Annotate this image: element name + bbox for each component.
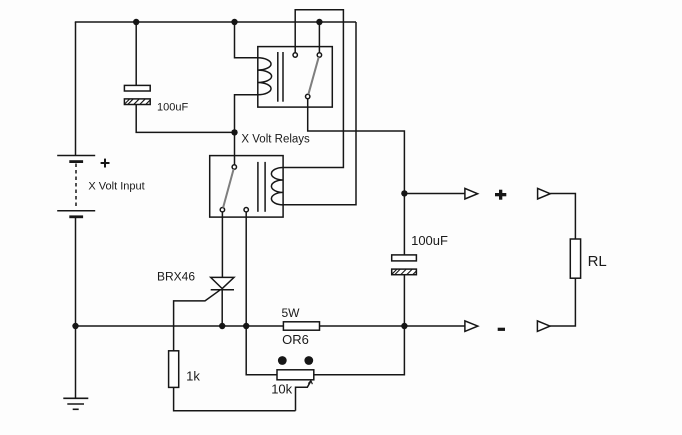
- relay K1 coil: [258, 58, 272, 95]
- node SCR cathode / bottom rail: [219, 323, 225, 329]
- wire RL bottom to minus right terminal: [550, 278, 575, 326]
- relay K1 switch contacts: [293, 53, 297, 57]
- relay K2 switch arm: [223, 169, 234, 208]
- svg-text:BRX46: BRX46: [157, 269, 195, 283]
- relay K2 coil: [271, 168, 283, 205]
- svg-text:X Volt Relays: X Volt Relays: [241, 133, 310, 145]
- wire R1 bottom to pot wiper run: [174, 387, 296, 410]
- svg-text:X Volt Input: X Volt Input: [88, 180, 144, 192]
- svg-text:5W: 5W: [282, 306, 301, 320]
- svg-text:100uF: 100uF: [157, 101, 188, 113]
- wire bottom rail right of R2: [320, 325, 465, 327]
- terminal arrow plus left: [465, 188, 478, 199]
- node top rail / C1: [133, 19, 139, 25]
- svg-text:100uF: 100uF: [411, 233, 448, 248]
- node K2 contact / pot left / bottom rail: [243, 323, 249, 329]
- relay K1 core: [277, 52, 279, 102]
- wire capacitor C1 bottom to node: [136, 105, 234, 133]
- resistor R2 5W OR6: [283, 322, 319, 330]
- wire K2 contact down to bottom rail: [245, 212, 247, 326]
- wire pot left lead: [246, 326, 277, 375]
- terminal arrow minus left: [465, 321, 478, 332]
- relay K1 box: [258, 47, 333, 108]
- wire top rail: [75, 21, 356, 23]
- relay K2 core: [257, 162, 259, 212]
- wire bottom rail left: [76, 325, 284, 327]
- capacitor C1 100uF: [124, 85, 150, 104]
- wire ground drop: [75, 326, 77, 398]
- wire right drop from top rail to relay K2 coil bottom lead: [283, 22, 356, 205]
- relay K1 switch arm: [308, 57, 318, 94]
- svg-text:OR6: OR6: [282, 332, 309, 347]
- wire K1 switch common down and right to plus node: [308, 99, 405, 194]
- svg-text:1k: 1k: [186, 369, 200, 384]
- plus symbol battery: [101, 159, 110, 168]
- wire node down to relay K2 common: [234, 132, 236, 164]
- relay K2 box: [210, 156, 283, 218]
- wire node to relay K1 coil top: [235, 22, 258, 58]
- node top rail / K1 coil: [231, 19, 237, 25]
- wire top loop from K1 switch pin to K2 coil top lead: [283, 10, 343, 168]
- node C1 / K1 coil / K2 common: [231, 129, 237, 135]
- terminal arrow plus right: [538, 188, 551, 199]
- wire K2 contact down to SCR anode: [221, 212, 223, 278]
- node battery / ground / bottom rail: [72, 323, 78, 329]
- relay K2 switch contacts: [232, 165, 236, 169]
- battery B1 X Volt Input: [57, 156, 95, 217]
- plus symbol output: [495, 190, 506, 200]
- wire relay K1 coil bottom to node: [235, 95, 258, 133]
- svg-text:RL: RL: [588, 253, 607, 270]
- wire top rail to capacitor C1: [135, 22, 137, 85]
- node top rail / K1 switch: [316, 19, 322, 25]
- ground: [63, 398, 88, 409]
- pot mounting dot right: [304, 356, 313, 365]
- node plus output: [401, 190, 407, 196]
- wire SCR cathode to bottom rail: [221, 290, 223, 326]
- terminal arrow minus right: [537, 321, 550, 332]
- wire plus output line: [404, 193, 465, 195]
- wire battery positive to top rail: [75, 22, 77, 156]
- svg-text:10k: 10k: [271, 382, 292, 397]
- resistor R1 1k: [169, 351, 179, 388]
- thyristor Q1 BRX46: [174, 277, 234, 350]
- wire top rail to K1 switch pin: [318, 22, 320, 53]
- pot mounting dot left: [278, 356, 287, 365]
- pot wiper arrow: [296, 381, 313, 411]
- wire from plus right terminal to RL top: [550, 194, 575, 240]
- minus symbol output: [498, 328, 505, 331]
- capacitor C2 100uF: [403, 193, 405, 255]
- node minus output: [401, 323, 407, 329]
- wire battery negative down to bottom rail: [75, 217, 77, 326]
- wire pot right lead up to minus node: [314, 326, 405, 375]
- potentiometer VR1 10k: [277, 370, 314, 380]
- resistor RL: [570, 239, 580, 278]
